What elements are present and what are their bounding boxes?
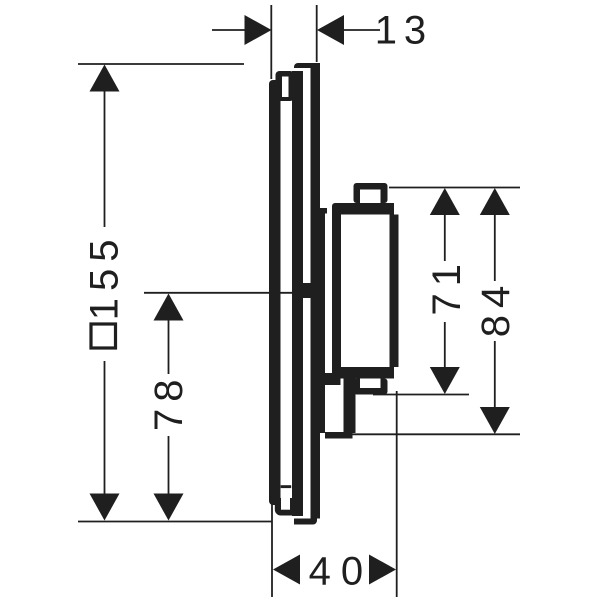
top knob	[354, 183, 388, 203]
valve body	[332, 203, 399, 379]
arrow 13 pointing right	[245, 15, 272, 45]
body notch top right	[394, 203, 399, 215]
sleeve bar	[292, 71, 303, 516]
plate top bar	[294, 63, 320, 68]
svg-text:40: 40	[309, 549, 374, 593]
arrow 155 up	[90, 65, 120, 92]
label 155 square	[91, 324, 116, 348]
svg-text:13: 13	[375, 9, 434, 53]
extension line 71 84 top	[389, 187, 520, 189]
arrow 40 pointing right	[369, 555, 396, 585]
extension line 40 right	[396, 391, 398, 597]
arrow 84 up	[480, 188, 510, 215]
extension line 71 bottom	[373, 394, 469, 396]
body notch bottom right	[394, 367, 399, 379]
arrow 71 up	[430, 188, 460, 215]
svg-text:71: 71	[425, 257, 469, 316]
dim line 71 lower	[444, 322, 446, 367]
outlet ledge	[325, 373, 341, 385]
extension line 40 left	[271, 505, 273, 598]
top collar	[276, 71, 295, 101]
dim line 84 upper	[494, 214, 496, 281]
wall box bump	[321, 208, 328, 214]
dim line 78 upper	[168, 320, 170, 374]
extension line 155 top	[78, 63, 244, 65]
arrow 13 pointing left	[317, 15, 344, 45]
extension line 13 left	[270, 5, 272, 79]
svg-text:78: 78	[147, 373, 191, 432]
dim line 155 upper	[104, 90, 106, 227]
body interior	[341, 215, 390, 368]
bottom collar hole	[281, 488, 290, 510]
plate bottom bar	[294, 519, 317, 525]
dim line 71 upper	[444, 214, 446, 261]
arrow 71 down	[430, 367, 460, 394]
wall box edge	[320, 208, 326, 433]
extension line 155 bottom	[78, 521, 272, 523]
bridge block	[302, 283, 311, 298]
arrow 78 up	[154, 294, 184, 321]
dim line 84 lower	[494, 341, 496, 407]
arrow 84 down	[480, 407, 510, 434]
outlet pipe	[344, 378, 356, 433]
top knob hole	[360, 190, 381, 204]
dim line 78 lower	[168, 436, 170, 495]
arrow 155 down	[90, 494, 120, 521]
bottom knob	[354, 379, 388, 395]
arrow 78 down	[154, 494, 184, 521]
dim line 13 left tail	[212, 29, 246, 31]
svg-text:155: 155	[82, 233, 126, 321]
dim line 13 right tail	[343, 29, 380, 31]
bottom knob hole	[360, 379, 381, 389]
top collar hole	[282, 77, 289, 98]
bottom collar	[275, 498, 295, 516]
bottom collar tick	[281, 485, 292, 488]
svg-text:84: 84	[474, 279, 518, 338]
extension line 78 top	[144, 292, 295, 294]
extension line 13 right	[316, 5, 318, 62]
plate back bar	[311, 63, 321, 519]
outlet cap	[325, 432, 353, 439]
extension line 84 bottom	[352, 433, 520, 435]
faceplate front bar	[269, 80, 281, 505]
dim line 155 lower	[104, 361, 106, 495]
arrow 40 pointing left	[273, 555, 300, 585]
